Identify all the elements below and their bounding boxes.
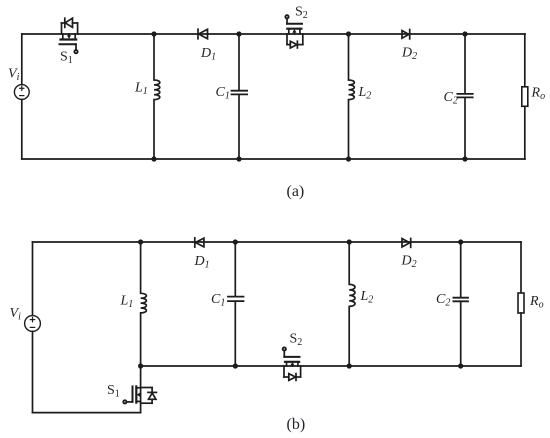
wire left vertical lower (a) [21,99,23,159]
svg-text:D1: D1 [194,254,210,271]
resistor Ro (b) [518,293,524,313]
wire bottom (b) [33,412,141,414]
node dots bottom rail (a) [151,156,156,161]
wire right vertical upper (b) [520,242,522,293]
diode D2 (a) [402,30,410,39]
svg-text:(b): (b) [287,416,306,433]
node dot C2 top (b) [458,239,463,244]
node dot C2 top (a) [462,31,467,36]
svg-text:Ro: Ro [529,294,544,311]
svg-text:S2: S2 [295,5,308,22]
svg-text:L2: L2 [360,289,374,306]
node dots bus (b) [138,363,143,368]
node dot L2 top (b) [347,239,352,244]
inductor L2 (b) [349,242,355,366]
resistor Ro (a) [522,87,528,107]
wire right vertical upper (a) [524,34,526,87]
node dot L2 top (a) [346,31,351,36]
svg-text:C2: C2 [436,292,450,309]
wire right vertical lower (a) [524,106,526,159]
wire right vertical lower (b) [520,313,522,366]
svg-text:S1: S1 [60,50,73,67]
source Vi (b) [25,316,41,332]
svg-text:C1: C1 [211,292,225,309]
capacitor C1 (a) [232,34,248,159]
diode D2 (b) [402,239,411,248]
wire bottom rail (a) [22,158,525,160]
node dot C1 top (b) [233,239,238,244]
svg-text:Ro: Ro [531,86,546,103]
svg-text:S1: S1 [107,383,120,400]
capacitor C1 (b) [228,242,244,366]
node dot L1 top (a) [151,31,156,36]
svg-text:L2: L2 [358,85,372,102]
capacitor C2 (b) [453,242,468,366]
svg-text:C2: C2 [444,90,458,107]
node dot C1 top (a) [236,31,241,36]
wire middle bus (b) [141,365,521,367]
MOSFET S1 (a): channel and gate [60,34,78,53]
capacitor C2 (a) [457,34,472,159]
diode D1 (a) [198,29,208,39]
svg-text:D2: D2 [401,46,417,63]
MOSFET S1 (a): body diode loop above [62,18,78,34]
wire top rail (b) [33,241,522,243]
inductor L1 (a) [154,34,160,159]
inductor L1 (b) [141,242,147,366]
svg-text:L1: L1 [134,81,148,98]
MOSFET S2 (a): gate above, body diode loop below [285,15,302,34]
svg-text:D1: D1 [200,46,216,63]
svg-text:C1: C1 [216,85,230,102]
node dot L1 top (b) [138,239,143,244]
diode D1 (b) [195,238,204,247]
wire left vertical upper (a) [21,34,23,85]
svg-text:Vi: Vi [8,67,20,84]
svg-text:Vi: Vi [10,306,22,323]
svg-text:D2: D2 [401,254,417,271]
wire left vertical upper (b) [32,242,34,316]
wire top rail (a) [22,33,525,35]
wire left vertical lower (b) [32,331,34,412]
svg-text:(a): (a) [287,183,305,200]
inductor L2 (a) [349,34,355,159]
svg-text:S2: S2 [290,332,303,349]
svg-text:L1: L1 [120,294,134,311]
source Vi (a) [14,85,29,100]
MOSFET S2 (b): gate above bus, body diode loop below [283,347,300,366]
MOSFET S1 (b): vertical, gate left, body diode loop right [123,366,140,413]
